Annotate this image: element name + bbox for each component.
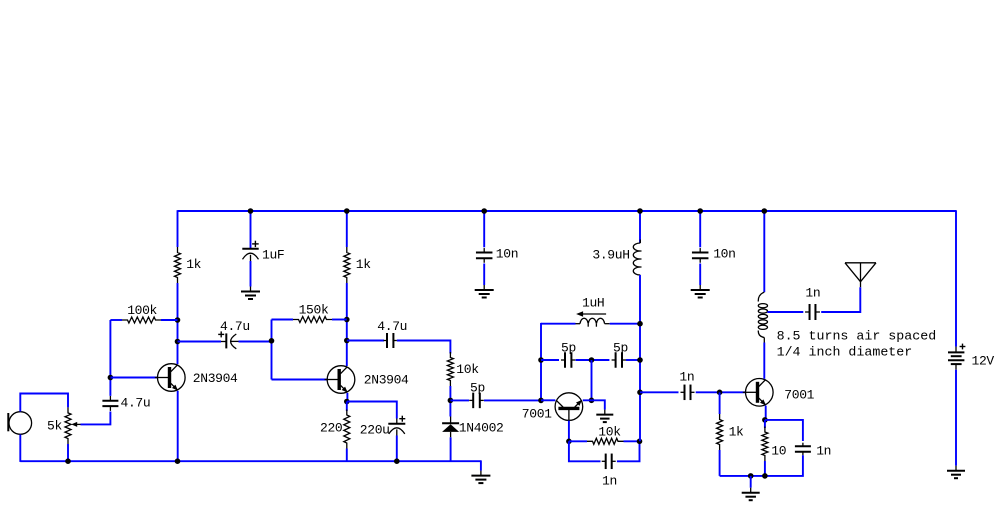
wire 1uF to ground — [250, 261, 252, 287]
wire 220u to rail — [396, 436, 398, 462]
capacitor 4.7u stage2 output — [384, 333, 397, 348]
wire 1k to Q1 collector — [177, 283, 179, 364]
wire to buffer ground — [750, 476, 752, 488]
wire 1n to antenna — [821, 287, 860, 312]
wire supply to 3.9uH — [639, 211, 641, 243]
wire buffer bottom — [720, 475, 766, 477]
wire diode to rail — [450, 437, 452, 461]
label 10n B — [713, 247, 735, 262]
wire right rail down — [955, 210, 957, 346]
node buffer base — [717, 390, 723, 396]
label 1n output — [679, 370, 694, 385]
node osc left / 5p ladder — [538, 357, 544, 363]
wire Q2 collector to cap — [347, 340, 384, 342]
node choke/osc top — [637, 321, 643, 327]
wire osc top left — [541, 323, 576, 325]
svg-text:1/4 inch diameter: 1/4 inch diameter — [777, 345, 913, 360]
ground battery — [947, 466, 965, 479]
label 8.5 turns line1 — [777, 329, 937, 344]
node 10k/5p/diode — [448, 398, 454, 404]
wire coil to buffer collector — [763, 343, 765, 379]
label 2N3904 (Q2) — [364, 373, 409, 388]
label 1uF — [262, 248, 284, 263]
svg-text:7001: 7001 — [522, 407, 552, 422]
label 10k — [456, 362, 479, 377]
node supply/Q2 branch — [344, 208, 350, 214]
svg-text:10k: 10k — [598, 425, 621, 440]
svg-text:2N3904: 2N3904 — [193, 371, 238, 386]
wire input cap to Q1 base node — [109, 320, 111, 396]
pot wiper arrow — [71, 422, 80, 427]
wire Q1 collector to cap — [178, 341, 222, 343]
svg-text:3.9uH: 3.9uH — [592, 248, 629, 263]
resistor 100k feedback — [110, 317, 177, 323]
node osc left / collector — [538, 398, 544, 404]
wire supply to 1uF — [250, 211, 252, 248]
svg-text:220u: 220u — [360, 423, 390, 438]
wire osc output to 1n — [640, 391, 679, 393]
node Q2 emitter — [344, 399, 350, 405]
label 1uH — [582, 296, 604, 311]
transistor Q2 2N3904 — [325, 366, 355, 394]
wire collector node to Q-osc — [541, 399, 555, 401]
wire 10k to node — [449, 386, 451, 417]
wire bottom ground rail — [20, 460, 481, 462]
node stage2 base network — [269, 338, 275, 344]
svg-text:1k: 1k — [186, 257, 201, 272]
wire cap to stage2 node — [239, 341, 272, 343]
svg-text:4.7u: 4.7u — [121, 396, 151, 411]
antenna — [845, 263, 876, 287]
node 5p ladder middle — [589, 357, 595, 363]
wire oscillator left vertical — [540, 323, 542, 401]
node buffer bottom right — [762, 473, 768, 479]
label 1k buffer — [729, 425, 744, 440]
microphone MIC — [8, 412, 31, 435]
label 8.5 turns line2 — [777, 345, 913, 360]
label 3.9uH — [592, 248, 629, 263]
node supply/10n A — [481, 208, 487, 214]
wire between 5p caps — [576, 359, 610, 361]
capacitor 1n output coupling — [681, 385, 695, 401]
ground symbol bottom rail — [471, 471, 490, 484]
ground Q-osc emitter — [596, 410, 613, 423]
1uH tuning arrow — [576, 311, 606, 317]
label 100k — [127, 303, 157, 318]
label 10n A — [496, 247, 518, 262]
label 12V — [972, 353, 995, 368]
label 150k — [299, 303, 329, 318]
capacitor 5p tank B — [612, 352, 626, 368]
capacitor 1n antenna — [805, 304, 820, 320]
label 5p tank A — [561, 341, 576, 356]
node pot/ground rail — [65, 458, 71, 464]
wire mic bottom to ground rail — [19, 435, 21, 462]
svg-text:1N4002: 1N4002 — [459, 421, 504, 436]
svg-text:5p: 5p — [561, 341, 576, 356]
wire Q-osc emitter to ground stub — [583, 400, 605, 409]
resistor R 1k (Q1 collector load) — [175, 247, 181, 283]
resistor 10k feedback — [569, 438, 640, 444]
label 10k feedback — [598, 425, 621, 440]
node supply/output branch — [762, 208, 768, 214]
svg-text:12V: 12V — [972, 353, 995, 368]
wire choke to oscillator — [639, 275, 641, 441]
resistor 10 emitter — [762, 420, 768, 476]
wire Q1 collector branch top — [177, 210, 179, 247]
wire top supply rail — [178, 210, 957, 212]
node Q1 base — [108, 375, 114, 381]
svg-text:5p: 5p — [613, 341, 628, 356]
svg-text:1uF: 1uF — [262, 248, 284, 263]
label 220u — [360, 423, 390, 438]
svg-text:4.7u: 4.7u — [220, 319, 250, 334]
wire 5p middle to emitter — [591, 360, 593, 400]
svg-text:7001: 7001 — [784, 388, 814, 403]
svg-text:10k: 10k — [456, 362, 479, 377]
node Q1 collector / coupling cap — [175, 339, 181, 345]
capacitor 220u polarized — [388, 416, 405, 436]
capacitor 5p coupling — [469, 393, 484, 409]
svg-text:5p: 5p — [470, 381, 485, 396]
potentiometer 5k body — [65, 407, 71, 444]
node Q1 collector / 100k feedback — [175, 317, 181, 323]
label 1n bypass — [816, 443, 831, 458]
wire buffer emitter — [765, 406, 767, 420]
label 5p coupling — [470, 381, 485, 396]
capacitor 10n A — [476, 248, 493, 263]
wire 5p ladder left — [541, 359, 559, 361]
wire 10n A to ground — [483, 264, 485, 286]
label 4.7u stage2 — [377, 319, 407, 334]
svg-text:10n: 10n — [496, 247, 518, 262]
wire emitter to 220u — [347, 402, 397, 419]
label 1n feedback — [602, 474, 617, 489]
resistor 10k — [447, 352, 453, 386]
node feedback right — [637, 439, 643, 445]
wire supply to 10n A — [483, 211, 485, 247]
node supply/1uF — [248, 208, 254, 214]
capacitor 10n B — [692, 248, 709, 263]
resistor R 1k (Q2 collector load) — [344, 247, 350, 283]
svg-text:1k: 1k — [729, 425, 744, 440]
wire osc top right — [610, 323, 640, 325]
wire stage2 left vertical — [271, 320, 273, 380]
svg-text:4.7u: 4.7u — [377, 319, 407, 334]
node supply/choke — [637, 208, 643, 214]
wire battery to ground — [955, 370, 957, 466]
label 1k — [186, 257, 201, 272]
svg-text:1k: 1k — [356, 257, 371, 272]
svg-text:150k: 150k — [299, 303, 329, 318]
node Q2 collector / 150k — [344, 317, 350, 323]
capacitor 4.7u coupling (polarized) — [218, 331, 238, 348]
wire 5p to oscillator — [484, 399, 541, 401]
wire 1n bypass down — [765, 455, 803, 476]
node Q1 emitter/rail — [175, 458, 181, 464]
node Q2 collector / coupling cap — [344, 338, 350, 344]
svg-text:5k: 5k — [47, 419, 62, 434]
svg-text:10n: 10n — [713, 247, 735, 262]
node buffer bottom left — [748, 473, 754, 479]
battery 12V — [948, 344, 965, 370]
wire 10n B to ground — [699, 264, 701, 286]
wire pot bottom to rail — [67, 444, 69, 461]
resistor 1k buffer base — [717, 392, 723, 476]
node oscillator output — [637, 390, 643, 396]
wire feedback 1n left — [569, 441, 601, 461]
inductor 3.9uH choke — [633, 240, 641, 276]
node emitter/5p middle — [589, 398, 595, 404]
wire 5p ladder right — [626, 359, 640, 361]
capacitor 1uF polarized — [242, 241, 258, 261]
transistor Q1 2N3904 — [155, 364, 185, 392]
wire wiper to input cap — [81, 412, 111, 425]
wire supply to 10n B — [699, 211, 701, 247]
wire coil tap to 1n — [767, 311, 803, 313]
wire Q1 emitter to rail — [177, 391, 179, 461]
label 2N3904 (Q1) — [193, 371, 238, 386]
label 5k — [47, 419, 62, 434]
svg-text:1n: 1n — [816, 443, 831, 458]
label 220 — [320, 421, 342, 436]
ground buffer — [742, 488, 760, 501]
label 1N4002 — [459, 421, 504, 436]
label 4.7u input — [121, 396, 151, 411]
wire node to 5p — [450, 399, 469, 401]
wire Q2 emitter — [346, 393, 348, 402]
inductor L output coil 8.5 turns — [758, 292, 767, 342]
capacitor 1n feedback — [602, 454, 616, 470]
svg-text:220: 220 — [320, 421, 342, 436]
transistor Q4 7001 buffer — [743, 379, 773, 407]
label 4.7u coupling — [220, 319, 250, 334]
wire 1k to Q2 collector — [346, 283, 348, 366]
resistor 150k feedback — [272, 317, 347, 323]
wire emitter to 1n bypass — [765, 420, 803, 441]
svg-text:100k: 100k — [127, 303, 157, 318]
ground below 1uF — [241, 287, 260, 300]
label 10 emitter — [771, 444, 786, 459]
resistor 220 emitter — [344, 402, 350, 462]
node buffer emitter — [762, 417, 768, 423]
wire 1n to buffer base — [696, 391, 746, 393]
label 7001 oscillator — [522, 407, 552, 422]
label 5p tank B — [613, 341, 628, 356]
wire cap to 10k — [397, 341, 451, 354]
capacitor 1n bypass — [795, 443, 811, 456]
node 220u/rail — [394, 458, 400, 464]
svg-text:8.5 turns air spaced: 8.5 turns air spaced — [777, 329, 937, 344]
inductor 1uH — [576, 318, 610, 326]
ground 10n B — [691, 285, 710, 298]
node supply/10n B — [697, 208, 703, 214]
wire bottom rail end down — [480, 460, 482, 470]
svg-text:2N3904: 2N3904 — [364, 373, 409, 388]
label 1n antenna — [805, 286, 820, 301]
svg-text:10: 10 — [771, 444, 786, 459]
svg-text:1n: 1n — [679, 370, 694, 385]
label 1k (2) — [356, 257, 371, 272]
ground 10n A — [475, 285, 494, 298]
wire mic top to 5k pot top — [20, 394, 68, 412]
wire Q2 collector branch top — [346, 211, 348, 247]
wire supply to output coil — [763, 211, 765, 292]
label 7001 buffer — [784, 388, 814, 403]
wire to Q2 base — [272, 379, 328, 381]
wire base node to Q1 — [110, 377, 158, 379]
transistor Q3 7001 oscillator — [555, 393, 583, 423]
svg-text:1uH: 1uH — [582, 296, 604, 311]
node base/feedback — [566, 439, 572, 445]
diode 1N4002 — [442, 417, 459, 438]
wire Q-osc base down — [568, 421, 570, 442]
capacitor 4.7u input — [102, 396, 118, 411]
wire feedback 1n right — [617, 441, 640, 461]
svg-text:1n: 1n — [602, 474, 617, 489]
capacitor 5p tank A — [561, 352, 575, 368]
svg-text:1n: 1n — [805, 286, 820, 301]
node choke/5p ladder — [637, 357, 643, 363]
